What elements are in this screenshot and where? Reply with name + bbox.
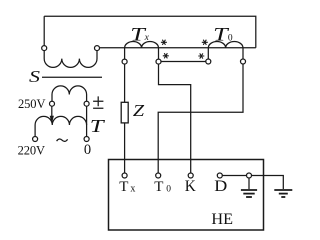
svg-text:HE: HE (211, 210, 233, 228)
transformer S core line (42, 76, 102, 78)
polarity mark Tx primary (161, 40, 167, 45)
label plus-minus (93, 96, 103, 108)
svg-text:x: x (144, 33, 150, 43)
node 250V terminal (50, 101, 55, 106)
wire T0 right terminal to HE terminal T0 (158, 64, 243, 173)
polarity mark T0 secondary (198, 53, 204, 58)
svg-text:D: D (214, 178, 227, 195)
node Tx secondary right terminal (156, 59, 161, 64)
polarity mark Tx secondary (163, 53, 169, 58)
node ground junction (247, 173, 252, 178)
autotransformer T winding (35, 116, 87, 136)
svg-text:220V: 220V (18, 143, 45, 157)
wire Tx right terminal to HE terminal K (159, 64, 191, 173)
wiper arrow of autotransformer T (51, 106, 53, 117)
node plus-minus terminal (84, 101, 89, 106)
tilde AC symbol of autotransformer (57, 139, 68, 141)
node 220V terminal (33, 137, 38, 142)
ground symbol inside HE (241, 178, 257, 197)
transformer S bottom winding (52, 86, 87, 101)
svg-text:T: T (154, 179, 163, 195)
svg-text:250V: 250V (18, 97, 45, 111)
node HE terminal D (217, 173, 222, 178)
transformer S top winding (44, 51, 97, 68)
wire Tx left terminal down to Z (124, 64, 126, 102)
transformer T0 secondary winding (208, 42, 243, 60)
svg-text:T: T (90, 116, 106, 136)
wire left drop to S winding (43, 16, 45, 46)
impedance Z box (121, 102, 128, 123)
svg-text:0: 0 (84, 142, 91, 158)
ground symbol external (274, 190, 292, 197)
wire top loop (44, 16, 256, 48)
svg-text:0: 0 (166, 185, 171, 195)
svg-text:S: S (29, 67, 40, 86)
node S winding right terminal (95, 46, 100, 51)
node T0 secondary left terminal (206, 59, 211, 64)
svg-text:K: K (185, 178, 196, 195)
polarity mark T0 primary (202, 40, 208, 45)
node HE terminal K (188, 173, 193, 178)
wire Z to HE terminal Tx (124, 123, 126, 173)
node HE terminal Tx (122, 173, 127, 178)
wire D to ground node (222, 175, 246, 177)
svg-text:T: T (119, 179, 128, 195)
HE instrument box (109, 160, 264, 231)
node 0 terminal (84, 137, 89, 142)
node T0 secondary right terminal (241, 59, 246, 64)
node S winding left terminal (42, 46, 47, 51)
svg-text:Z: Z (133, 101, 145, 120)
transformer Tx secondary winding (125, 42, 159, 60)
wire main conductor (primary line through Tx and T0) (99, 47, 255, 49)
svg-text:0: 0 (228, 33, 233, 43)
node HE terminal T0 (156, 173, 161, 178)
wire Tx right terminal to T0 left terminal (161, 61, 206, 63)
wire ground node to external ground (252, 176, 284, 190)
wire plus-minus to 0 terminal (86, 106, 88, 136)
node Tx secondary left terminal (122, 59, 127, 64)
svg-text:x: x (130, 183, 135, 194)
